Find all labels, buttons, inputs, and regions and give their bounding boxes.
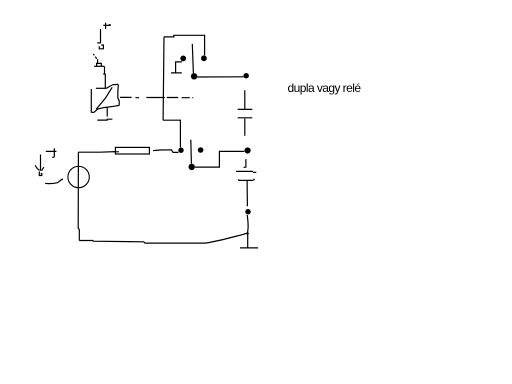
node + (dagger mark, left)	[46, 148, 57, 157]
relay coil K1	[91, 84, 119, 112]
svg-text:dupla vagy relé: dupla vagy relé	[288, 81, 362, 95]
relay contact K1a blade	[192, 44, 193, 74]
wire (left column)	[78, 152, 79, 240]
switch S1 (small square contact)	[99, 45, 103, 49]
node (lower NC contact, floating)	[198, 147, 204, 153]
junction mark	[247, 232, 249, 234]
node + (supply mark, top left)	[103, 23, 110, 29]
wire (left rail jog down)	[163, 120, 180, 147]
wire	[195, 151, 245, 167]
capacitor C1 lead	[244, 90, 246, 109]
wire	[247, 234, 249, 248]
node (lower left fixed contact)	[178, 148, 183, 153]
battery B1	[236, 171, 256, 180]
wire	[153, 150, 178, 153]
wire (top run to resistor)	[78, 151, 119, 154]
terminal bracket (upper left contact stub)	[171, 62, 182, 73]
node (upper right fixed contact)	[201, 55, 207, 61]
switch S1 contact box	[97, 63, 102, 66]
switch S1 actuator (dashes)	[93, 54, 97, 59]
wire	[100, 29, 102, 43]
battery B1 lead	[244, 159, 246, 168]
capacitor C1 lead	[244, 119, 246, 136]
arrow (current direction)	[35, 155, 44, 171]
wire (bottom run)	[79, 233, 247, 243]
node (lower right)	[245, 147, 251, 153]
node tick	[97, 42, 101, 44]
capacitor C1	[238, 109, 253, 117]
mechanical link (dash-dot line)	[120, 96, 193, 98]
wire (coil tap)	[106, 107, 108, 117]
node (lower blade pivot)	[189, 164, 195, 170]
ground (under coil)	[97, 118, 112, 121]
wire (top rail)	[164, 35, 205, 55]
wire	[94, 65, 104, 67]
node (capacitor top)	[244, 73, 249, 78]
source V1 (circle)	[68, 166, 89, 187]
node (battery bottom)	[245, 209, 250, 214]
wire	[197, 76, 244, 78]
tilde mark	[45, 179, 63, 184]
relay contact K1b blade	[190, 140, 193, 164]
node (upper blade pivot)	[191, 73, 197, 79]
resistor R1	[115, 147, 149, 154]
ground (bottom bar)	[240, 247, 258, 249]
wire	[103, 66, 105, 88]
wire (left rail)	[162, 37, 165, 120]
arrow tip loop	[39, 171, 42, 175]
node (upper left fixed contact)	[180, 56, 186, 62]
wire	[246, 215, 249, 233]
switch S1 pole wire	[97, 59, 99, 63]
battery B1 lead	[246, 180, 248, 206]
